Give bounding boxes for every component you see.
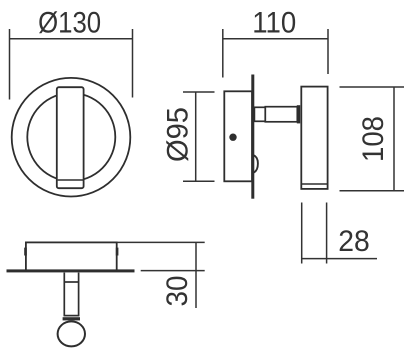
bar cap line	[58, 179, 83, 181]
wall plate (side, thick vertical)	[251, 75, 254, 199]
dimension line Ø95	[195, 92, 197, 181]
dimension line 110	[223, 38, 328, 40]
dimension line 108	[393, 87, 395, 191]
dimension line 28	[302, 258, 377, 260]
extension line right of 110	[327, 29, 329, 74]
extension line right of Ø130	[132, 29, 134, 98]
arm segment 2	[265, 107, 297, 122]
wall plate line (bottom view)	[7, 269, 135, 272]
extension tick bottom of Ø95	[183, 180, 215, 182]
outer circle (plate front)	[12, 78, 131, 197]
svg-text:110: 110	[252, 7, 296, 40]
left clip tab	[24, 248, 27, 256]
arm segment 1	[254, 107, 265, 121]
stem right edge	[78, 273, 80, 316]
stem divider	[64, 281, 78, 283]
spotlight bar (front)	[57, 87, 84, 188]
svg-text:28: 28	[338, 225, 370, 258]
extension line left of Ø130	[9, 29, 11, 100]
extension line bottom of 30	[141, 270, 205, 272]
extension line left of 28	[301, 203, 303, 264]
stem left edge	[63, 273, 65, 316]
bulb ball	[58, 321, 85, 346]
extension line right of 28	[326, 203, 328, 264]
round body (side)	[224, 91, 252, 181]
extension tick top of 108	[340, 86, 405, 88]
collar band	[63, 317, 80, 320]
arm knuckle	[297, 105, 300, 123]
switch knob on plate	[254, 155, 258, 172]
right clip tab	[116, 248, 119, 256]
dimension line Ø130	[10, 38, 133, 40]
dimension line 30	[195, 242, 197, 308]
inner circle (Ø95 body front)	[27, 93, 115, 181]
extension line top of 30	[117, 241, 205, 243]
screw dot on body	[229, 134, 236, 141]
svg-text:Ø130: Ø130	[38, 7, 101, 40]
svg-text:Ø95: Ø95	[162, 107, 195, 162]
body (top view)	[26, 242, 117, 270]
barrel lens line	[301, 183, 327, 185]
spotlight barrel (side)	[301, 87, 327, 189]
extension tick bottom of 108	[340, 190, 405, 192]
svg-text:108: 108	[357, 116, 390, 162]
extension line left of 110	[222, 29, 224, 78]
svg-text:30: 30	[161, 276, 194, 307]
stem lower line	[64, 315, 80, 317]
extension tick top of Ø95	[183, 91, 215, 93]
